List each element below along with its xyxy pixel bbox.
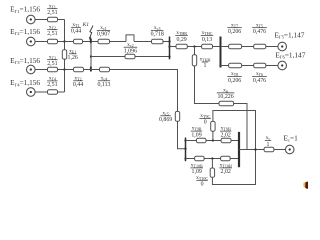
EMF source E_Г5	[278, 42, 287, 51]
wire	[91, 56, 125, 58]
label x_Т8/0,206	[227, 71, 242, 84]
wire	[35, 41, 48, 43]
svg-text:1,096: 1,096	[124, 48, 137, 54]
wire	[187, 46, 201, 48]
wire	[212, 131, 214, 140]
node bus2/lower	[219, 64, 221, 66]
resistance box x_Т10Н 2,02	[221, 156, 231, 161]
EMF source E_Г4	[27, 88, 36, 97]
svg-text:0,907: 0,907	[97, 32, 110, 38]
wire	[110, 41, 127, 43]
wire	[211, 159, 213, 169]
node bus-left / branch2	[63, 40, 65, 42]
EMF source E_Г1	[27, 15, 36, 24]
label x_Т2/0,44	[73, 75, 83, 88]
wire Т9С over to right vertical	[213, 111, 256, 150]
label x_с4/0,113	[97, 75, 110, 88]
label x_с1/0,907	[97, 25, 110, 38]
label x_с2/1,096	[124, 42, 138, 55]
wire	[186, 140, 197, 142]
wire drop to bottom bus	[178, 121, 186, 148]
label x_Т10Н/2,02	[219, 163, 232, 176]
wire	[274, 149, 286, 151]
wire	[186, 158, 195, 160]
wire	[84, 69, 100, 71]
wire	[135, 56, 170, 58]
wire	[58, 41, 65, 43]
EMF source E_с	[285, 145, 294, 154]
node (bold) on branch row 3	[90, 66, 92, 71]
resistance box x_н 10,226	[219, 101, 234, 106]
svg-text:0: 0	[204, 120, 207, 126]
resistance box x_с2 1,096	[125, 54, 135, 59]
node busB/feed	[184, 148, 186, 150]
svg-text:0,718: 0,718	[151, 32, 164, 38]
node bus1/parallel path	[168, 55, 170, 57]
EMF source E_Г3	[27, 65, 36, 74]
svg-text:2,51: 2,51	[47, 31, 57, 37]
node busB/row2	[184, 157, 186, 159]
bus node 1	[169, 37, 171, 60]
resistance box x_ТНН 1	[192, 55, 196, 66]
resistance box x_с5 0,869	[175, 111, 179, 121]
label x_Г4/2,51	[47, 76, 58, 89]
resistance box x_Г4 2,51	[48, 90, 58, 95]
wire	[221, 46, 229, 48]
wire	[194, 47, 196, 55]
node Т10С tap	[211, 157, 213, 159]
wire	[65, 69, 74, 71]
svg-text:2,51: 2,51	[47, 61, 57, 67]
wire	[230, 158, 239, 160]
resistance box x_ТНС 0,13	[202, 44, 213, 49]
wire hop over x_с2	[126, 35, 134, 42]
node bus1/output	[168, 45, 170, 47]
svg-text:0,206: 0,206	[228, 78, 241, 84]
resistance box x_Т9С 0	[211, 121, 215, 131]
wire	[58, 19, 65, 21]
resistance box x_с4 0,113	[100, 67, 110, 72]
resistance box x_Т1 0,44	[74, 39, 83, 44]
wire	[242, 65, 254, 67]
resistance box x_Г3 2,51	[48, 67, 58, 72]
wire	[90, 42, 92, 70]
svg-text:1: 1	[267, 142, 270, 148]
resistance box x_Т10В 1,09	[195, 156, 205, 161]
wire	[170, 46, 177, 48]
wire	[65, 41, 74, 43]
wire rail return	[212, 150, 255, 185]
wire	[239, 149, 264, 151]
label x_Т1/0,44	[71, 22, 81, 35]
wire	[204, 158, 221, 160]
wire ТНН down to x_н	[195, 66, 220, 104]
resistance box x_ТНВ 0,29	[176, 44, 187, 49]
wire	[206, 140, 221, 142]
node Т9С tap	[212, 139, 214, 141]
label x_ТНС/0,13	[201, 30, 213, 43]
resistance box x_Г1 2,51	[48, 17, 58, 22]
label x_с3/0,718	[151, 25, 164, 38]
svg-text:1,26: 1,26	[68, 55, 78, 61]
svg-text:2,51: 2,51	[47, 10, 57, 16]
svg-text:0,44: 0,44	[73, 82, 83, 88]
label x_н/10,226	[217, 88, 235, 101]
node busB/row1	[184, 139, 186, 141]
resistance box x_с 1	[264, 147, 274, 152]
wire	[35, 91, 48, 93]
svg-text:1,09: 1,09	[191, 132, 201, 138]
bus node bottom-left	[185, 138, 187, 162]
resistance box x_с1 0,907	[98, 39, 110, 44]
bus node bottom-right (bold)	[238, 132, 240, 167]
node system tie	[254, 148, 256, 150]
svg-text:0,113: 0,113	[97, 82, 110, 88]
label x_Б1/1,26	[68, 48, 78, 61]
wire	[242, 46, 254, 48]
svg-text:0,44: 0,44	[71, 29, 81, 35]
resistance box x_с3 0,718	[152, 39, 164, 44]
wire x_н to system node	[234, 104, 247, 150]
resistance box x_Т7 0,206	[229, 44, 242, 49]
wire	[35, 19, 48, 21]
wire	[58, 69, 65, 71]
node K-column / parallel path	[90, 55, 92, 57]
svg-text:0,476: 0,476	[253, 78, 266, 84]
label x_с/1	[265, 135, 271, 148]
svg-text:Eс=1: Eс=1	[284, 133, 299, 142]
wire to drop column	[110, 70, 178, 112]
wire	[221, 65, 229, 67]
wire	[64, 59, 66, 92]
svg-text:2,51: 2,51	[47, 82, 57, 88]
resistance box x_Г2 2,51	[48, 39, 58, 44]
resistance box x_Т10С 0	[210, 168, 214, 177]
label x_Т9С/0	[199, 113, 211, 126]
label x_ТНН/1	[200, 57, 211, 70]
scan artifact (red speck)	[305, 182, 310, 189]
node bus1/top path	[168, 40, 170, 42]
bus node 2	[220, 37, 222, 68]
svg-text:0,869: 0,869	[159, 117, 172, 123]
wire	[163, 41, 170, 43]
node bus2/upper	[219, 45, 221, 47]
svg-text:К1: К1	[82, 22, 90, 28]
svg-text:0,13: 0,13	[202, 37, 212, 43]
wire	[231, 140, 239, 142]
short-circuit point K1	[82, 22, 93, 40]
label x_с5/0,869	[159, 110, 172, 123]
svg-text:2,02: 2,02	[221, 169, 231, 175]
wire	[266, 65, 278, 67]
label x_Г2/2,51	[47, 24, 58, 37]
svg-text:0,476: 0,476	[253, 29, 266, 35]
label x_Г3/2,51	[47, 54, 58, 67]
wire	[266, 46, 278, 48]
label x_Г6/0,476	[252, 71, 267, 84]
node K1 (bold)	[90, 38, 92, 43]
resistance box x_Г5 0,476	[254, 44, 266, 49]
node ТНН tap	[193, 45, 195, 47]
EMF source E_Г6	[278, 61, 287, 70]
svg-text:2,02: 2,02	[221, 132, 231, 138]
svg-text:0,206: 0,206	[228, 29, 241, 35]
wire	[213, 46, 221, 48]
label x_Т10С/0	[196, 175, 208, 188]
label x_Т9Н/2,02	[220, 126, 232, 139]
resistance box x_Т2 0,44	[74, 67, 84, 72]
label x_Г1/2,51	[47, 3, 58, 16]
resistance box x_Б1 1,26	[62, 50, 66, 59]
label x_Т10В/1,09	[190, 163, 203, 176]
wire	[134, 41, 152, 43]
wire	[83, 41, 99, 43]
node bus-left / branch3	[63, 68, 65, 70]
resistance box x_Г6 0,476	[254, 63, 266, 68]
label x_ТНВ/0,29	[175, 30, 188, 43]
resistance box x_Т8 0,206	[229, 63, 242, 68]
svg-text:10,226: 10,226	[217, 94, 233, 100]
EMF source E_Г2	[27, 37, 36, 46]
svg-text:1: 1	[204, 63, 207, 69]
label x_Г5/0,476	[252, 22, 267, 35]
resistance box x_Т9Н 2,02	[221, 138, 231, 143]
svg-text:0,29: 0,29	[176, 37, 186, 43]
wire	[35, 69, 48, 71]
wire	[58, 91, 65, 93]
label x_Т7/0,206	[227, 22, 242, 35]
svg-text:0: 0	[201, 182, 204, 188]
label x_Т9В/1,09	[191, 126, 202, 139]
resistance box x_Т9В 1,09	[197, 138, 207, 143]
wire	[64, 20, 66, 50]
